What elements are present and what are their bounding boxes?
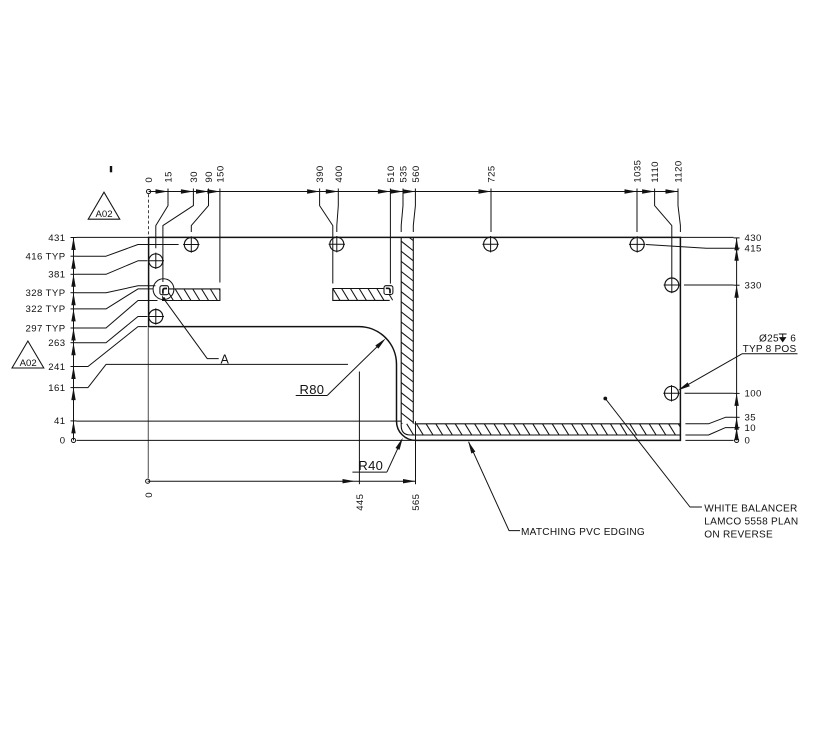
- svg-text:R40: R40: [358, 458, 383, 473]
- svg-text:330: 330: [745, 281, 762, 292]
- hole 725/416: [482, 236, 498, 252]
- top ordinate dimension line: [149, 191, 678, 193]
- hole 15/381: [148, 253, 164, 269]
- top extension lines: [156, 194, 168, 248]
- svg-text:0: 0: [144, 177, 155, 183]
- hole 90/416: [183, 236, 199, 252]
- svg-text:415: 415: [745, 244, 762, 255]
- svg-text:6: 6: [790, 334, 796, 345]
- left dim ticks/arrows/labels: [71, 238, 75, 251]
- svg-text:ON REVERSE: ON REVERSE: [704, 529, 773, 540]
- A02 triangle (left): [12, 341, 44, 368]
- svg-text:560: 560: [411, 165, 422, 182]
- groove bar 2 hook square: [384, 286, 393, 295]
- svg-text:1035: 1035: [633, 160, 644, 183]
- bottom extension lines: [358, 372, 360, 479]
- svg-text:725: 725: [487, 165, 498, 182]
- right dim ticks/arrows/labels: [734, 238, 738, 251]
- svg-text:90: 90: [204, 171, 215, 182]
- bottom ordinate dimension line: [148, 480, 416, 482]
- svg-text:15: 15: [164, 171, 175, 182]
- svg-text:390: 390: [315, 165, 326, 182]
- top 0 extension (dashed): [148, 194, 150, 236]
- svg-text:445: 445: [355, 494, 366, 511]
- hole 15/263: [148, 308, 164, 324]
- svg-text:565: 565: [411, 494, 422, 511]
- svg-text:400: 400: [334, 165, 345, 182]
- svg-text:431: 431: [48, 233, 65, 244]
- svg-text:161: 161: [48, 383, 65, 394]
- svg-text:297 TYP: 297 TYP: [26, 323, 66, 334]
- svg-text:241: 241: [48, 362, 65, 373]
- svg-text:510: 510: [386, 165, 397, 182]
- svg-text:WHITE BALANCER: WHITE BALANCER: [704, 503, 797, 514]
- svg-text:0: 0: [144, 492, 155, 498]
- svg-text:R80: R80: [300, 382, 325, 397]
- hole 1110/100: [663, 385, 679, 401]
- detail A leader: [162, 297, 165, 300]
- groove bar 1 hook square (detail A feature): [160, 286, 169, 295]
- hole 1035/415: [629, 236, 645, 252]
- svg-text:100: 100: [745, 389, 762, 400]
- svg-text:0: 0: [745, 436, 751, 447]
- svg-text:150: 150: [215, 165, 226, 182]
- svg-text:A02: A02: [20, 358, 37, 369]
- svg-text:1110: 1110: [650, 161, 661, 183]
- svg-text:41: 41: [54, 416, 65, 427]
- right leader lines: [680, 236, 733, 238]
- svg-text:10: 10: [745, 423, 756, 434]
- svg-text:MATCHING PVC EDGING: MATCHING PVC EDGING: [521, 527, 645, 538]
- detail A circle: [153, 279, 174, 300]
- svg-text:328 TYP: 328 TYP: [26, 288, 66, 299]
- left ordinate dimension line: [73, 238, 75, 441]
- stray tick mark: [110, 166, 112, 172]
- svg-text:A: A: [221, 353, 230, 367]
- svg-text:1120: 1120: [674, 160, 685, 182]
- svg-text:LAMCO 5558 PLAN: LAMCO 5558 PLAN: [704, 516, 798, 527]
- panel outline: [149, 237, 681, 440]
- svg-text:535: 535: [399, 165, 410, 182]
- svg-text:Ø25: Ø25: [759, 334, 779, 345]
- svg-text:416 TYP: 416 TYP: [26, 252, 66, 263]
- hole 1110/330: [664, 277, 680, 293]
- left leader lines: [77, 236, 149, 238]
- hole 400/416: [329, 236, 345, 252]
- right ordinate dimension line: [736, 238, 738, 441]
- svg-text:381: 381: [48, 270, 65, 281]
- svg-text:0: 0: [60, 436, 66, 447]
- svg-text:263: 263: [48, 338, 65, 349]
- svg-text:30: 30: [189, 171, 200, 182]
- svg-text:A02: A02: [95, 209, 112, 220]
- svg-text:322 TYP: 322 TYP: [26, 304, 66, 315]
- A02 triangle (top): [88, 192, 120, 219]
